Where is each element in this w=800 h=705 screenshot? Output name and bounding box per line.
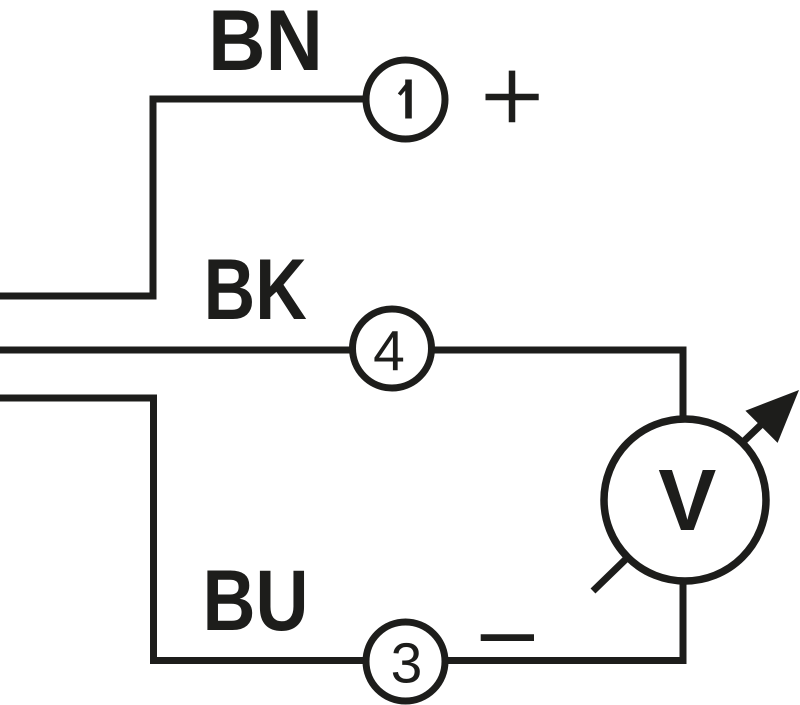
svg-text:BN: BN [208,0,323,89]
svg-text:4: 4 [373,320,405,384]
svg-text:BU: BU [203,553,309,649]
arrow head [745,390,799,443]
node pin 4 [353,309,432,388]
arrow upper-right shaft [743,420,766,442]
minus sign [481,634,534,641]
node pin 3 [366,622,445,701]
wire BN (brown): left stub, vertical riser, top run to pin 1 [0,99,366,296]
arrow lower-left stub [593,559,626,591]
plus sign [486,71,539,123]
svg-text:V: V [658,452,716,549]
wire BK (black): middle run to voltmeter top [0,350,683,418]
voltmeter V1 circle [604,419,766,581]
pin number 1 [398,80,412,119]
wire BU (blue): left stub, drop, bottom run, rise to voltmeter bottom [0,398,683,661]
svg-text:BK: BK [204,242,307,338]
svg-text:3: 3 [391,632,423,696]
node pin 1 [366,60,445,139]
